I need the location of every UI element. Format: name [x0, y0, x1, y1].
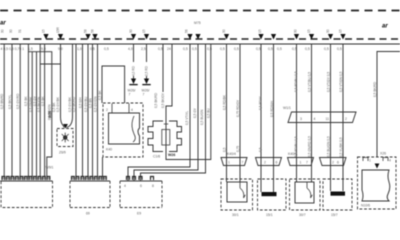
svg-text:W26: W26	[48, 111, 52, 118]
wire curve right	[67, 44, 73, 128]
coupler left shell	[148, 121, 163, 152]
svg-text:0,5 BK: 0,5 BK	[24, 96, 28, 106]
svg-text:0,5 BK/GY: 0,5 BK/GY	[161, 92, 165, 108]
relay inner box	[109, 113, 140, 144]
svg-text:15R: 15R	[56, 26, 60, 33]
wire	[296, 44, 298, 182]
connector trapezoid 3	[288, 158, 314, 166]
inner box	[295, 182, 314, 203]
svg-text:0,5 BK/RD: 0,5 BK/RD	[373, 81, 377, 97]
svg-text:1: 1	[300, 161, 302, 165]
splice symbol	[63, 135, 67, 139]
wire	[330, 44, 332, 191]
svg-text:15: 15	[339, 29, 343, 33]
switch symbol	[307, 182, 312, 198]
svg-text:0,5: 0,5	[324, 47, 329, 51]
svg-text:0,5 BN/RD: 0,5 BN/RD	[0, 93, 4, 109]
svg-text:0,5 BK/RD: 0,5 BK/RD	[72, 96, 76, 112]
fuse box 15/1 dashed	[258, 179, 287, 210]
svg-text:30: 30	[129, 29, 133, 33]
switch symbol	[240, 182, 245, 198]
wire	[3, 44, 5, 177]
wire	[102, 157, 104, 177]
svg-text:2: 2	[264, 161, 266, 165]
svg-text:0,5 BK/RD: 0,5 BK/RD	[154, 92, 158, 108]
svg-text:0,5 GY: 0,5 GY	[193, 107, 197, 118]
svg-text:0,5: 0,5	[337, 47, 342, 51]
svg-text:30/1: 30/1	[232, 213, 239, 217]
svg-text:3: 3	[300, 117, 302, 121]
coupler right shell	[169, 121, 182, 152]
svg-text:ar: ar	[0, 21, 6, 27]
svg-text:24: 24	[167, 47, 171, 51]
svg-text:0,5 GY/RD: 0,5 GY/RD	[16, 93, 20, 109]
svg-text:0,5 RD/WH: 0,5 RD/WH	[270, 100, 274, 117]
svg-text:6: 6	[140, 184, 142, 188]
svg-text:0,5 WH: 0,5 WH	[78, 97, 82, 108]
svg-text:0,5 GY/GN: 0,5 GY/GN	[93, 96, 97, 112]
svg-text:0,5: 0,5	[183, 47, 188, 51]
ground wire 2	[146, 44, 148, 62]
svg-text:0,5 GY/BK: 0,5 GY/BK	[56, 96, 60, 112]
inner box	[227, 182, 247, 202]
wire	[27, 44, 29, 177]
wire	[11, 44, 13, 177]
arrow into splice	[63, 124, 68, 129]
svg-text:0,5 VT/GY 0,5: 0,5 VT/GY 0,5	[326, 72, 330, 92]
svg-text:0,5 RD/BU 0,5: 0,5 RD/BU 0,5	[294, 71, 298, 92]
svg-text:W1/1: W1/1	[283, 106, 291, 110]
svg-text:W26: W26	[168, 153, 175, 157]
relay dashed box	[103, 103, 143, 157]
svg-text:15: 15	[258, 29, 262, 33]
svg-text:0,5: 0,5	[305, 47, 310, 51]
relay pin stub 1	[111, 104, 113, 114]
relay coil curve	[132, 116, 135, 142]
svg-text:4: 4	[124, 184, 126, 188]
svg-text:7: 7	[129, 93, 131, 97]
svg-text:W9/1: W9/1	[46, 166, 54, 170]
svg-text:0,5 RD/BK: 0,5 RD/BK	[222, 94, 226, 110]
svg-text:31: 31	[18, 29, 22, 33]
svg-text:1,0: 1,0	[77, 47, 82, 51]
wire	[97, 44, 99, 177]
connector trapezoid 4	[320, 158, 347, 166]
svg-text:0,75: 0,75	[236, 146, 240, 152]
svg-text:E9: E9	[137, 212, 141, 216]
svg-text:2: 2	[332, 161, 334, 165]
svg-text:7: 7	[306, 161, 308, 165]
svg-text:2: 2	[345, 117, 347, 121]
svg-text:30: 30	[9, 29, 13, 33]
fuse element	[262, 192, 277, 196]
ground arrow 1	[131, 79, 136, 85]
svg-text:0,5: 0,5	[222, 147, 226, 152]
top border dashed line	[0, 10, 400, 12]
svg-text:0,75 RD/GY: 0,75 RD/GY	[236, 99, 240, 117]
svg-text:0,5 GN/RD 0,5: 0,5 GN/RD 0,5	[307, 136, 311, 157]
bend wire 2	[134, 44, 198, 181]
svg-text:15/1: 15/1	[266, 213, 273, 217]
wire	[82, 44, 84, 177]
svg-text:0,5: 0,5	[104, 47, 109, 51]
wire	[273, 44, 275, 192]
strip pin ticks	[296, 114, 298, 122]
connector box W9/1 area	[0, 180, 53, 182]
wire	[342, 44, 344, 191]
svg-text:Z6/9: Z6/9	[59, 151, 66, 155]
coupler inner element	[162, 130, 170, 146]
svg-text:7: 7	[242, 161, 244, 165]
svg-text:4,0 RD: 4,0 RD	[132, 65, 136, 76]
pin tick	[164, 123, 168, 125]
svg-text:15: 15	[142, 29, 146, 33]
bus dashed line 30	[0, 38, 400, 40]
bend wire 1	[128, 44, 190, 181]
bend wire 4 to coupler	[166, 44, 211, 160]
svg-text:K40/7: K40/7	[288, 152, 297, 156]
svg-text:1: 1	[369, 159, 371, 163]
wire	[92, 44, 94, 177]
svg-text:0,5 YL/BK 0,5: 0,5 YL/BK 0,5	[339, 137, 343, 157]
svg-text:30: 30	[294, 29, 298, 33]
wire	[31, 52, 33, 177]
svg-text:0,5: 0,5	[158, 47, 163, 51]
svg-text:69: 69	[86, 212, 90, 216]
svg-text:30/7: 30/7	[299, 213, 306, 217]
svg-text:0,5: 0,5	[192, 47, 197, 51]
svg-text:2,5: 2,5	[141, 47, 146, 51]
svg-text:30: 30	[326, 29, 330, 33]
svg-text:9,0: 9,0	[41, 47, 46, 51]
svg-text:K40: K40	[106, 148, 112, 152]
connector trapezoid 1	[221, 158, 247, 166]
svg-text:1: 1	[228, 161, 230, 165]
svg-text:0,5: 0,5	[258, 147, 262, 152]
svg-text:11: 11	[326, 117, 330, 121]
svg-text:K40/4: K40/4	[227, 152, 236, 156]
svg-text:15: 15	[42, 29, 46, 33]
svg-text:0,5: 0,5	[268, 47, 273, 51]
wire	[44, 44, 46, 177]
wire	[87, 44, 89, 177]
bridge wire 2	[40, 63, 60, 65]
svg-text:6: 6	[276, 161, 278, 165]
svg-text:0,5 VT/BU 0,5: 0,5 VT/BU 0,5	[307, 72, 311, 92]
svg-text:N10/6: N10/6	[361, 204, 370, 208]
arrow into unit	[375, 164, 380, 169]
svg-text:X26: X26	[380, 152, 386, 156]
svg-text:4: 4	[389, 159, 391, 163]
svg-text:2: 2	[106, 108, 108, 112]
wire	[75, 44, 77, 177]
svg-text:0,5 BK/YL: 0,5 BK/YL	[8, 94, 12, 109]
svg-text:0,5 BU: 0,5 BU	[207, 108, 211, 118]
svg-text:58: 58	[84, 29, 88, 33]
svg-text:0,5: 0,5	[277, 47, 282, 51]
svg-text:30: 30	[222, 29, 226, 33]
pin bracket 2	[383, 158, 388, 162]
svg-text:4,0: 4,0	[128, 47, 133, 51]
wire into coupler with jog	[166, 44, 172, 121]
relay box 30/7 dashed	[290, 179, 321, 210]
svg-text:ar: ar	[382, 24, 388, 30]
svg-text:0,5 VT/GN 0,5: 0,5 VT/GN 0,5	[339, 71, 343, 92]
svg-text:7: 7	[143, 93, 145, 97]
svg-text:4: 4	[314, 117, 316, 121]
control unit dashed box	[358, 157, 397, 209]
svg-text:C1/6: C1/6	[153, 155, 160, 159]
wire	[19, 44, 21, 177]
ground wire 1	[133, 44, 135, 62]
svg-text:0,5 VT/YL: 0,5 VT/YL	[185, 111, 189, 125]
wire curve left	[61, 44, 65, 128]
svg-text:2,5 RD: 2,5 RD	[145, 65, 149, 76]
bridge wire 1	[28, 52, 51, 176]
svg-text:0,5 RD/YL: 0,5 RD/YL	[258, 95, 262, 110]
svg-text:0,5 GY/BU: 0,5 GY/BU	[84, 96, 88, 112]
corner wire from right edge	[377, 52, 400, 158]
splice box Z6/9 dashed	[57, 129, 73, 147]
svg-text:15/7: 15/7	[331, 213, 338, 217]
unit inner outline wavy	[362, 170, 390, 201]
svg-text:15: 15	[307, 29, 311, 33]
svg-text:0,5: 0,5	[234, 47, 239, 51]
wire loop over relay	[102, 66, 125, 103]
ground arrow 2	[144, 79, 149, 85]
wire label col	[162, 44, 164, 92]
pin bracket 1	[363, 158, 368, 162]
fuse element	[331, 192, 346, 196]
bend wire 3	[141, 44, 206, 181]
pins row	[2, 177, 50, 181]
svg-text:0,5 BU/GN: 0,5 BU/GN	[200, 109, 204, 125]
svg-text:0,5: 0,5	[256, 47, 261, 51]
svg-text:0,5: 0,5	[220, 47, 225, 51]
svg-text:0,5 BK: 0,5 BK	[41, 96, 45, 106]
svg-text:8: 8	[152, 184, 154, 188]
strip parallelogram	[288, 112, 356, 123]
wire	[239, 44, 241, 182]
relay box 30/1 dashed	[221, 179, 253, 210]
relay pin stub 2	[128, 104, 130, 114]
wire	[260, 44, 262, 192]
wire	[36, 52, 38, 177]
svg-text:4: 4	[131, 108, 133, 112]
arrowheads on bus	[43, 34, 48, 40]
wire through coupler	[165, 121, 167, 152]
svg-text:M75: M75	[194, 21, 201, 25]
svg-text:0,5 BU/GN 0,5: 0,5 BU/GN 0,5	[326, 136, 330, 157]
wire	[226, 44, 228, 182]
svg-text:56: 56	[185, 29, 189, 33]
svg-text:58: 58	[91, 29, 95, 33]
svg-text:0,5 BK: 0,5 BK	[98, 90, 102, 100]
svg-text:30: 30	[1, 29, 5, 33]
svg-text:6: 6	[337, 161, 339, 165]
wire	[39, 44, 41, 177]
connector trapezoid 2	[256, 158, 282, 166]
bus solid line	[0, 43, 400, 45]
svg-text:0,5 BN: 0,5 BN	[88, 98, 92, 108]
wire	[311, 44, 313, 182]
fuse box 15/7 dashed	[323, 179, 352, 210]
